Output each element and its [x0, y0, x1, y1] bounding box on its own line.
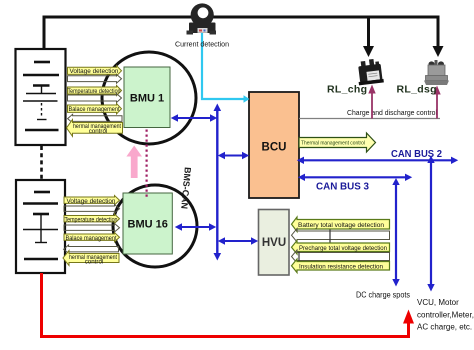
svg-text:Balace management: Balace management	[69, 106, 120, 113]
svg-text:BMU 1: BMU 1	[130, 93, 164, 105]
svg-text:control: control	[85, 258, 104, 265]
wire dashed link between packs	[40, 146, 43, 180]
arrow Battery total voltage detection	[292, 217, 390, 232]
pack2 white arrow 2	[64, 224, 120, 232]
svg-text:RL_chg: RL_chg	[327, 84, 367, 96]
connector line	[329, 230, 331, 244]
connector line	[298, 252, 300, 262]
pack1 white arrow 2	[68, 94, 122, 103]
BMU 1 box	[124, 67, 170, 128]
wire BCU to backbone	[223, 155, 244, 157]
white arrow hvu 2	[292, 250, 390, 263]
BMU 16 box	[123, 193, 172, 254]
pack1 arrow Balace management	[68, 104, 122, 114]
arrow Insulation resistance detection	[292, 259, 390, 273]
svg-text:CAN BUS 3: CAN BUS 3	[316, 182, 369, 193]
wire branch to RL_dsg	[437, 16, 440, 48]
svg-text:Charge and discharge control: Charge and discharge control	[347, 108, 437, 117]
relay RL_dsg icon	[424, 60, 449, 85]
svg-text:DC charge spots: DC charge spots	[356, 291, 410, 300]
wire charge/discharge control	[299, 118, 440, 120]
pack2 arrow Balace management	[64, 233, 120, 242]
svg-text:AC charge, etc.: AC charge, etc.	[417, 323, 472, 332]
svg-text:Voltage detection: Voltage detection	[67, 198, 116, 205]
wire CAN3 to DC charge spots	[395, 182, 397, 281]
svg-text:RL_dsg: RL_dsg	[397, 84, 437, 96]
svg-text:Balace management: Balace management	[66, 235, 117, 242]
svg-text:controller,Meter,: controller,Meter,	[417, 311, 474, 320]
svg-text:Precharge total voltage detect: Precharge total voltage detection	[299, 245, 387, 252]
svg-text:Temperature detection: Temperature detection	[65, 216, 118, 223]
wire control to RL_dsg	[436, 93, 438, 119]
svg-text:Current detection: Current detection	[175, 40, 229, 49]
pack2 arrow Voltage detection	[64, 196, 120, 205]
pack2 white arrow left	[64, 245, 119, 253]
svg-text:control: control	[89, 128, 108, 135]
pack2 white arrow 1	[64, 205, 120, 213]
relay RL_chg icon	[356, 58, 384, 85]
wire cyan current-signal to BCU	[202, 33, 244, 99]
wire top power bus	[44, 17, 438, 50]
pack1 arrow Voltage detection	[68, 66, 122, 76]
svg-text:Thermal management control: Thermal management control	[301, 141, 365, 147]
wire CAN BUS 3	[302, 176, 408, 178]
wire control to RL_chg	[371, 92, 373, 119]
white arrow hvu 1	[292, 229, 390, 243]
svg-text:Battery total voltage detectio: Battery total voltage detection	[298, 222, 384, 229]
svg-text:BMU 16: BMU 16	[128, 219, 168, 231]
pack1 white arrow 1	[68, 74, 122, 83]
pack1 arrow thermal management control	[67, 120, 123, 137]
BMU 16 circle	[113, 185, 197, 267]
pack2 arrow thermal management control	[63, 251, 119, 266]
pack1 arrow Temperature detection	[68, 86, 122, 96]
arrow thermal management control (green)	[299, 133, 376, 152]
wire backbone to HVU	[223, 240, 253, 242]
wire CAN backbone vertical	[216, 108, 218, 255]
wire red power output	[42, 273, 409, 337]
BCU box	[249, 92, 299, 198]
wire dotted inter-BMU	[146, 130, 148, 198]
arrow pink inter-BMU	[131, 154, 138, 178]
svg-text:CAN BUS 2: CAN BUS 2	[391, 149, 442, 160]
pack1 white arrow left	[68, 114, 122, 123]
BMU 1 circle	[102, 52, 196, 144]
wire CAN2 to VCU	[430, 161, 432, 286]
HVU box	[259, 210, 290, 276]
wire CAN BUS 2	[301, 159, 454, 161]
svg-text:HVU: HVU	[262, 237, 286, 249]
wire BMU1 to backbone	[176, 117, 212, 119]
wire branch to RL_chg	[367, 17, 370, 47]
svg-text:Temperature detection: Temperature detection	[68, 88, 121, 95]
current sensor icon	[187, 3, 217, 34]
battery pack 2	[16, 180, 65, 273]
arrow Precharge total voltage detection	[292, 241, 390, 255]
svg-text:Insulation resistance detectio: Insulation resistance detection	[299, 263, 383, 270]
svg-text:Voltage detection: Voltage detection	[70, 68, 119, 75]
battery pack 1	[16, 49, 66, 145]
svg-text:VCU, Motor: VCU, Motor	[417, 298, 459, 307]
pack2 arrow Temperature detection	[64, 214, 120, 223]
wire BMU16 to backbone	[180, 226, 211, 228]
svg-text:BCU: BCU	[262, 142, 287, 154]
